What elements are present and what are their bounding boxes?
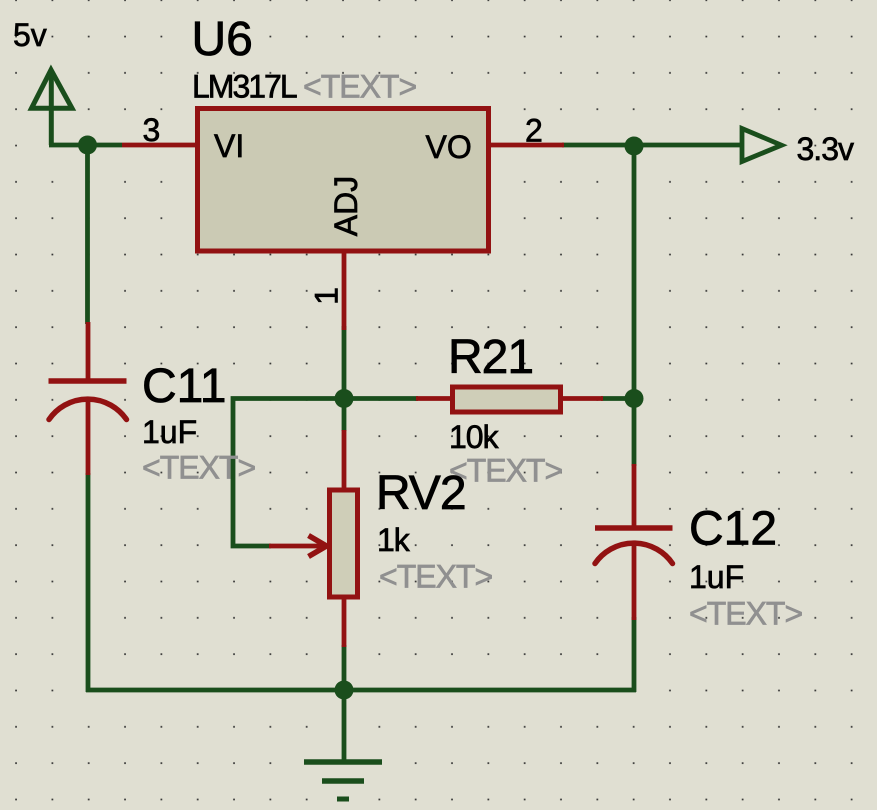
svg-text:VO: VO bbox=[426, 129, 472, 165]
svg-text:<TEXT>: <TEXT> bbox=[379, 559, 492, 595]
svg-text:VI: VI bbox=[214, 128, 244, 164]
svg-text:C12: C12 bbox=[689, 502, 777, 555]
svg-text:10k: 10k bbox=[449, 419, 500, 455]
svg-text:U6: U6 bbox=[192, 13, 253, 66]
svg-text:3.3v: 3.3v bbox=[797, 131, 854, 167]
svg-text:3: 3 bbox=[143, 112, 161, 148]
svg-text:<TEXT>: <TEXT> bbox=[303, 68, 416, 104]
svg-text:1: 1 bbox=[309, 287, 345, 305]
svg-text:<TEXT>: <TEXT> bbox=[689, 596, 802, 632]
svg-text:5v: 5v bbox=[13, 17, 47, 53]
svg-text:1uF: 1uF bbox=[142, 414, 197, 450]
svg-text:LM317L: LM317L bbox=[192, 68, 297, 104]
svg-text:C11: C11 bbox=[142, 360, 227, 413]
svg-text:<TEXT>: <TEXT> bbox=[142, 450, 255, 486]
svg-text:<TEXT>: <TEXT> bbox=[449, 453, 562, 489]
svg-text:ADJ: ADJ bbox=[328, 176, 364, 236]
svg-text:1k: 1k bbox=[377, 522, 411, 558]
svg-text:R21: R21 bbox=[448, 331, 533, 384]
svg-text:1uF: 1uF bbox=[689, 559, 744, 595]
svg-text:RV2: RV2 bbox=[376, 467, 466, 520]
svg-text:2: 2 bbox=[525, 113, 543, 149]
